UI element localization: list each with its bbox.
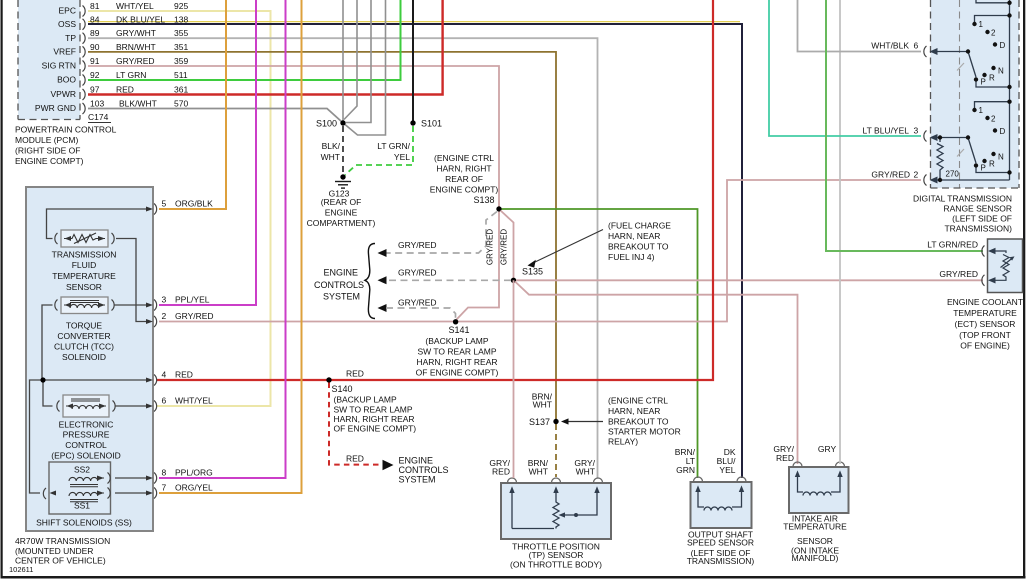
svg-text:STARTER MOTOR: STARTER MOTOR [608, 427, 681, 437]
svg-text:(LEFT SIDE OF: (LEFT SIDE OF [952, 214, 1012, 224]
svg-text:(FUEL CHARGE: (FUEL CHARGE [608, 221, 671, 231]
svg-text:BOO: BOO [57, 75, 76, 85]
svg-text:270: 270 [946, 170, 960, 179]
svg-text:SENSOR: SENSOR [66, 282, 102, 292]
svg-text:N: N [998, 67, 1004, 76]
svg-text:CONTROLS: CONTROLS [399, 465, 449, 475]
svg-text:GRY/WHT: GRY/WHT [116, 28, 156, 38]
svg-text:GRY/RED: GRY/RED [398, 240, 437, 250]
svg-text:R: R [989, 74, 995, 83]
svg-text:ORG/YEL: ORG/YEL [175, 483, 213, 493]
svg-text:(TP) SENSOR: (TP) SENSOR [529, 550, 584, 560]
svg-text:ENGINE: ENGINE [325, 208, 358, 218]
svg-text:SW TO REAR LAMP: SW TO REAR LAMP [334, 404, 413, 414]
svg-text:P: P [981, 164, 986, 173]
svg-text:OF ENGINE): OF ENGINE) [960, 341, 1010, 351]
svg-text:ENGINE COOLANT: ENGINE COOLANT [947, 297, 1023, 307]
svg-text:(ENGINE CTRL: (ENGINE CTRL [434, 153, 494, 163]
svg-text:(ECT) SENSOR: (ECT) SENSOR [955, 319, 1016, 329]
svg-text:(EPC) SOLENOID: (EPC) SOLENOID [51, 451, 120, 461]
svg-text:511: 511 [174, 70, 188, 80]
svg-text:ENGINE COMPT): ENGINE COMPT) [430, 185, 499, 195]
svg-text:SHIFT SOLENOIDS (SS): SHIFT SOLENOIDS (SS) [36, 518, 132, 528]
svg-text:(BACKUP LAMP: (BACKUP LAMP [425, 336, 488, 346]
svg-text:(REAR OF: (REAR OF [321, 197, 362, 207]
svg-text:S138: S138 [473, 195, 494, 205]
svg-text:REAR OF: REAR OF [445, 174, 483, 184]
svg-text:97: 97 [90, 85, 100, 95]
svg-text:SS2: SS2 [74, 465, 90, 475]
svg-text:SW TO REAR LAMP: SW TO REAR LAMP [417, 347, 496, 357]
svg-text:5: 5 [162, 199, 167, 209]
svg-text:TRANSMISSION): TRANSMISSION) [687, 556, 755, 566]
svg-text:SS1: SS1 [74, 501, 90, 511]
svg-text:GRY/RED: GRY/RED [939, 269, 978, 279]
svg-text:S100: S100 [316, 119, 337, 129]
svg-text:1: 1 [979, 106, 984, 115]
svg-text:OF ENGINE COMPT): OF ENGINE COMPT) [334, 424, 417, 434]
svg-text:BREAKOUT TO: BREAKOUT TO [608, 242, 669, 252]
svg-text:ENGINE COMPT): ENGINE COMPT) [15, 156, 84, 166]
svg-text:RED: RED [346, 369, 364, 379]
svg-text:PPL/YEL: PPL/YEL [175, 295, 210, 305]
svg-text:C174: C174 [88, 112, 109, 122]
svg-text:7: 7 [162, 483, 167, 493]
svg-text:102611: 102611 [9, 565, 33, 574]
svg-text:103: 103 [90, 99, 104, 109]
svg-text:91: 91 [90, 56, 100, 66]
svg-text:2: 2 [991, 115, 996, 124]
svg-text:GRY/RED: GRY/RED [398, 298, 437, 308]
svg-text:GRN: GRN [676, 465, 695, 475]
svg-text:DK BLU/YEL: DK BLU/YEL [116, 14, 165, 24]
svg-text:TRANSMISSION: TRANSMISSION [52, 250, 117, 260]
svg-text:P: P [981, 78, 986, 87]
svg-text:TEMPERATURE: TEMPERATURE [52, 271, 116, 281]
svg-text:WHT/YEL: WHT/YEL [116, 1, 154, 11]
svg-text:MODULE (PCM): MODULE (PCM) [15, 135, 78, 145]
svg-text:LT GRN/RED: LT GRN/RED [927, 240, 978, 250]
svg-text:CONTROL: CONTROL [65, 440, 107, 450]
svg-text:3: 3 [914, 126, 919, 136]
svg-text:POWERTRAIN CONTROL: POWERTRAIN CONTROL [15, 125, 117, 135]
svg-text:CONTROLS: CONTROLS [314, 280, 364, 290]
svg-text:S137: S137 [529, 417, 550, 427]
svg-text:RELAY): RELAY) [608, 437, 638, 447]
svg-text:D: D [1000, 127, 1006, 136]
svg-text:1: 1 [979, 20, 984, 29]
svg-text:PWR GND: PWR GND [35, 103, 76, 113]
svg-text:2: 2 [162, 311, 167, 321]
svg-text:DIGITAL TRANSMISSION: DIGITAL TRANSMISSION [913, 194, 1012, 204]
svg-text:BLK/: BLK/ [322, 141, 341, 151]
svg-text:4: 4 [162, 370, 167, 380]
svg-text:RED: RED [776, 453, 794, 463]
svg-text:S135: S135 [522, 267, 543, 277]
svg-text:WHT/YEL: WHT/YEL [175, 396, 213, 406]
svg-text:WHT: WHT [576, 467, 595, 477]
svg-text:N: N [998, 153, 1004, 162]
svg-text:3: 3 [162, 295, 167, 305]
svg-text:HARN, NEAR: HARN, NEAR [608, 406, 660, 416]
svg-text:RANGE SENSOR: RANGE SENSOR [944, 204, 1013, 214]
svg-text:(TOP FRONT: (TOP FRONT [959, 330, 1011, 340]
svg-text:GRY: GRY [818, 444, 837, 454]
svg-text:(ENGINE CTRL: (ENGINE CTRL [608, 396, 668, 406]
svg-text:RED: RED [116, 85, 134, 95]
svg-text:92: 92 [90, 70, 100, 80]
svg-text:6: 6 [162, 396, 167, 406]
svg-text:LT GRN: LT GRN [116, 70, 146, 80]
svg-text:2: 2 [991, 29, 996, 38]
svg-text:WHT: WHT [529, 467, 548, 477]
svg-text:WHT/BLK: WHT/BLK [871, 41, 909, 51]
svg-text:GRY/RED: GRY/RED [175, 311, 214, 321]
svg-text:ENGINE: ENGINE [399, 455, 434, 465]
svg-text:GRY/RED: GRY/RED [500, 229, 509, 266]
svg-text:351: 351 [174, 42, 188, 52]
svg-text:89: 89 [90, 28, 100, 38]
svg-text:SIG RTN: SIG RTN [42, 61, 76, 71]
svg-text:S101: S101 [421, 119, 442, 129]
svg-text:GRY/RED: GRY/RED [398, 268, 437, 278]
svg-text:OSS: OSS [58, 19, 76, 29]
svg-text:VREF: VREF [53, 47, 76, 57]
svg-text:FUEL INJ 4): FUEL INJ 4) [608, 252, 655, 262]
svg-text:TP: TP [65, 33, 76, 43]
svg-text:GRY/RED: GRY/RED [116, 56, 155, 66]
svg-text:YEL: YEL [719, 465, 735, 475]
svg-text:PPL/ORG: PPL/ORG [175, 468, 213, 478]
svg-text:RED: RED [492, 467, 510, 477]
svg-text:SYSTEM: SYSTEM [323, 292, 360, 302]
svg-text:BLK/WHT: BLK/WHT [119, 99, 157, 109]
svg-text:90: 90 [90, 42, 100, 52]
svg-text:SYSTEM: SYSTEM [399, 475, 436, 485]
svg-text:CONVERTER: CONVERTER [57, 331, 110, 341]
svg-text:GRY/RED: GRY/RED [486, 229, 495, 266]
svg-text:LT GRN/: LT GRN/ [377, 141, 410, 151]
svg-text:TEMPERATURE: TEMPERATURE [953, 308, 1017, 318]
svg-text:S140: S140 [332, 384, 353, 394]
svg-text:84: 84 [90, 14, 100, 24]
svg-text:WHT: WHT [321, 152, 340, 162]
svg-text:CENTER OF VEHICLE): CENTER OF VEHICLE) [15, 556, 106, 566]
svg-text:HARN, NEAR: HARN, NEAR [608, 231, 660, 241]
svg-text:138: 138 [174, 14, 188, 24]
svg-text:GRY/RED: GRY/RED [871, 170, 910, 180]
svg-text:570: 570 [174, 99, 188, 109]
svg-text:TRANSMISSION): TRANSMISSION) [944, 224, 1012, 234]
svg-text:YEL: YEL [394, 152, 410, 162]
svg-text:R: R [989, 160, 995, 169]
svg-text:OF ENGINE COMPT): OF ENGINE COMPT) [416, 368, 499, 378]
svg-text:BRN/WHT: BRN/WHT [116, 42, 156, 52]
svg-text:RED: RED [175, 370, 193, 380]
svg-text:D: D [1000, 41, 1006, 50]
svg-text:TEMPERATURE: TEMPERATURE [783, 522, 847, 532]
svg-text:COMPARTMENT): COMPARTMENT) [307, 218, 376, 228]
svg-text:ELECTRONIC: ELECTRONIC [59, 420, 114, 430]
svg-text:(MOUNTED UNDER: (MOUNTED UNDER [15, 546, 93, 556]
svg-text:925: 925 [174, 1, 188, 11]
svg-text:CLUTCH (TCC): CLUTCH (TCC) [54, 342, 114, 352]
svg-text:2: 2 [914, 170, 919, 180]
svg-text:EPC: EPC [59, 6, 76, 16]
svg-text:81: 81 [90, 1, 100, 11]
svg-text:ORG/BLK: ORG/BLK [175, 199, 213, 209]
svg-text:LT BLU/YEL: LT BLU/YEL [863, 126, 910, 136]
svg-text:WHT: WHT [533, 400, 552, 410]
svg-text:BREAKOUT TO: BREAKOUT TO [608, 417, 669, 427]
svg-text:SENSOR: SENSOR [797, 536, 833, 546]
svg-text:SOLENOID: SOLENOID [62, 352, 106, 362]
svg-text:ENGINE: ENGINE [323, 268, 358, 278]
svg-text:HARN, RIGHT REAR: HARN, RIGHT REAR [334, 414, 415, 424]
svg-text:RED: RED [346, 454, 364, 464]
svg-text:(BACKUP LAMP: (BACKUP LAMP [334, 395, 397, 405]
svg-text:S141: S141 [448, 325, 469, 335]
svg-text:6: 6 [914, 41, 919, 51]
svg-text:HARN, RIGHT: HARN, RIGHT [436, 164, 491, 174]
svg-text:HARN, RIGHT REAR: HARN, RIGHT REAR [416, 357, 497, 367]
svg-text:4R70W TRANSMISSION: 4R70W TRANSMISSION [15, 536, 110, 546]
svg-text:SPEED SENSOR: SPEED SENSOR [687, 538, 754, 548]
svg-text:(ON THROTTLE BODY): (ON THROTTLE BODY) [510, 560, 602, 570]
svg-text:MANIFOLD): MANIFOLD) [792, 553, 839, 563]
svg-text:FLUID: FLUID [72, 260, 97, 270]
svg-text:359: 359 [174, 56, 188, 66]
svg-text:355: 355 [174, 28, 188, 38]
svg-text:TORQUE: TORQUE [66, 321, 103, 331]
svg-text:361: 361 [174, 85, 188, 95]
svg-text:(RIGHT SIDE OF: (RIGHT SIDE OF [15, 146, 81, 156]
svg-text:VPWR: VPWR [51, 89, 77, 99]
svg-text:PRESSURE: PRESSURE [63, 430, 110, 440]
svg-text:8: 8 [162, 468, 167, 478]
